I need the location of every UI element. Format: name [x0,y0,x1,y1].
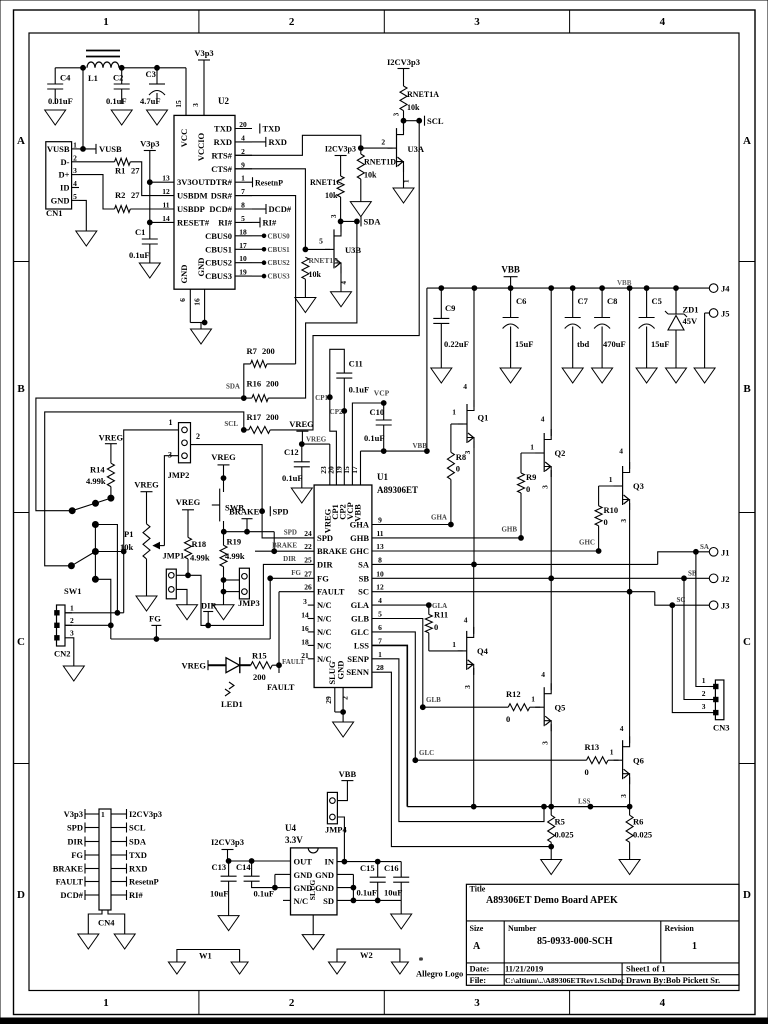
net label DIR flag [201,601,217,628]
svg-text:N/C: N/C [317,600,332,610]
ground J5 [694,368,715,383]
wire CP1 net [327,349,344,485]
svg-text:CBUS3: CBUS3 [205,271,232,281]
svg-text:RTS#: RTS# [212,150,233,160]
chip U1 A89306ET [314,472,418,688]
ground C3 [147,110,168,125]
svg-text:12: 12 [376,583,384,592]
svg-text:R1: R1 [115,166,125,176]
net label SB [688,569,697,577]
svg-text:SLUG: SLUG [308,880,317,901]
net label SPD pin grey [284,529,297,537]
svg-text:4: 4 [619,446,623,455]
svg-text:R11: R11 [434,610,448,620]
strap W1 [177,950,240,963]
svg-text:R18: R18 [192,539,207,549]
power VBB JMP4 [337,769,356,801]
wire Q6 source to LSS [627,777,632,809]
svg-text:JMP2: JMP2 [168,470,190,480]
svg-text:VCP: VCP [374,388,390,397]
svg-text:SA: SA [358,559,370,569]
svg-text:3: 3 [619,519,628,523]
svg-text:RXD: RXD [129,864,147,874]
wire FAULT net [277,592,315,668]
svg-text:VREG: VREG [289,419,314,429]
svg-text:SA: SA [700,543,709,551]
svg-text:DCD#: DCD# [60,890,83,900]
svg-text:4: 4 [241,133,245,142]
net label SDA row [226,383,240,391]
wire Q5 source to LSS [549,724,554,809]
svg-text:FG: FG [317,573,329,583]
ground JMP1 [177,605,198,620]
svg-text:VREG: VREG [99,433,124,443]
wire VCP net [352,401,386,485]
net label VREG grey [306,436,327,444]
svg-text:0: 0 [604,517,608,527]
svg-text:9: 9 [378,516,382,525]
ground W2 left [329,962,346,974]
title block frame [466,884,739,985]
svg-text:0.1uF: 0.1uF [282,473,303,483]
svg-text:IN: IN [325,857,335,867]
net label GHB [501,526,517,534]
net label SDA [361,216,381,226]
svg-text:6: 6 [178,298,187,302]
svg-text:BRAKE: BRAKE [272,542,297,550]
svg-text:GND: GND [315,883,334,893]
svg-text:N/C: N/C [317,640,332,650]
resistor R15 [251,650,279,682]
svg-text:GND: GND [315,870,334,880]
svg-text:1: 1 [103,16,109,28]
svg-text:1: 1 [73,140,77,149]
svg-text:0.1uF: 0.1uF [357,888,378,898]
svg-text:VBB: VBB [413,442,428,450]
svg-text:A: A [743,135,751,147]
svg-text:3: 3 [303,597,307,606]
resistor R10 [595,505,618,551]
switch blade 1 [69,495,114,514]
ground C8 [592,368,613,383]
net label VCP [374,388,390,397]
svg-text:VREG: VREG [176,497,201,507]
resistor R17 [244,412,279,433]
svg-text:D-: D- [61,157,70,167]
svg-text:R19: R19 [227,536,242,546]
net label BRAKE flag [229,507,260,535]
connector CN1 [46,140,79,218]
net label FG [149,614,161,640]
chip U4 regulator [285,823,337,915]
power V3p3 3V3OUT [140,139,159,240]
wire switch tap B [95,549,126,554]
resistor R1 [79,158,140,175]
power VREG R14 [99,433,124,464]
ground R5 [541,860,562,875]
svg-text:2: 2 [73,153,77,162]
svg-text:27: 27 [131,190,140,200]
ground C7 [562,368,583,383]
resistor R6 [626,807,652,860]
svg-text:200: 200 [262,346,275,356]
svg-text:3: 3 [619,794,628,798]
svg-text:SENN: SENN [346,667,370,677]
svg-text:200: 200 [266,379,279,389]
svg-text:2: 2 [241,147,245,156]
svg-text:C: C [743,636,751,648]
wire CN1 GND [79,200,86,231]
connector J3 [709,601,729,611]
capacitor C8 [594,288,626,368]
wire FG select [111,576,314,642]
svg-text:2: 2 [289,997,295,1009]
svg-text:4: 4 [463,382,467,391]
net label SC [677,596,686,604]
svg-text:C12: C12 [284,447,299,457]
svg-text:1: 1 [101,810,105,819]
wire U3A gate lead [361,137,393,148]
svg-text:DCD#: DCD# [269,204,292,214]
resistor RNET1A [400,86,439,121]
svg-text:10k: 10k [364,171,377,180]
inductor L1 [86,51,120,84]
wire GLB [372,619,425,710]
svg-text:CBUS2: CBUS2 [205,258,232,268]
svg-text:Number: Number [508,924,537,933]
svg-text:4.99k: 4.99k [86,476,106,486]
wire CN4 legs [88,910,124,934]
svg-text:C13: C13 [212,862,227,872]
svg-text:0.1uF: 0.1uF [254,889,275,899]
wire Q1 source to SA [472,441,477,567]
svg-text:Size: Size [470,924,484,933]
svg-text:GHA: GHA [431,514,447,522]
svg-text:3: 3 [474,997,480,1009]
ground CN2 [63,666,84,681]
wire Q6 drain [629,592,631,744]
svg-text:26: 26 [304,583,312,592]
ground U1 [333,722,354,737]
resistor R5 [548,807,574,860]
ground C5 [636,368,657,383]
svg-text:J1: J1 [721,547,730,557]
wire SCL staircase [270,121,419,430]
svg-text:GHB: GHB [501,526,517,534]
wire GHC [372,549,601,554]
wire top rail VUSB/V3p3 [55,65,186,70]
ground C12 [291,488,312,503]
wire VUSB [79,68,96,152]
svg-text:1: 1 [531,695,535,704]
net label TXD [260,124,281,134]
transistor Q2 [530,429,565,489]
svg-text:ZD1: ZD1 [683,305,699,315]
svg-text:V3p3: V3p3 [194,48,213,58]
svg-text:R2: R2 [115,190,125,200]
svg-text:0.1uF: 0.1uF [106,96,127,106]
capacitor C5 [639,288,670,368]
svg-text:470uF: 470uF [603,339,626,349]
svg-text:1: 1 [70,603,74,612]
led LED1 [208,657,251,709]
svg-text:45V: 45V [683,316,699,326]
svg-text:14: 14 [162,214,170,223]
svg-text:1: 1 [169,418,173,427]
svg-text:ID: ID [60,183,69,193]
svg-text:SPD: SPD [67,823,83,833]
chip U2 FT230X [174,96,235,289]
wire RESET# [147,220,174,225]
svg-text:22: 22 [304,542,312,551]
svg-text:GLC: GLC [351,627,369,637]
net label VBB grey U1 [413,442,428,450]
svg-text:0: 0 [526,484,530,494]
wire SCL row to switch [45,412,244,566]
svg-text:0.025: 0.025 [633,830,652,840]
svg-text:C14: C14 [236,862,251,872]
svg-text:27: 27 [304,569,312,578]
svg-text:3: 3 [463,685,472,689]
wire R2 to USBDP [130,208,174,210]
svg-text:4: 4 [660,16,666,28]
svg-text:1: 1 [610,748,614,757]
ground R6 [619,860,640,875]
svg-text:CBUS1: CBUS1 [268,246,291,254]
net label CP1 [315,394,328,402]
wire GHB [372,536,523,541]
svg-text:GLC: GLC [419,749,434,757]
resistor R14 [86,463,114,498]
wire RTS# to U3A gate [235,135,363,155]
wire U3B drain [340,221,342,232]
svg-text:R17: R17 [247,412,262,422]
svg-text:*: * [419,956,424,967]
svg-text:TXD: TXD [263,124,281,134]
net label RI# [252,217,277,227]
svg-text:0: 0 [456,464,460,474]
resistor R18 [185,537,210,575]
svg-text:1: 1 [609,475,613,484]
svg-text:R14: R14 [90,465,105,475]
svg-text:VREG: VREG [134,480,159,490]
svg-text:20: 20 [239,120,247,129]
svg-text:0: 0 [585,767,589,777]
net label SPD flag [270,506,288,516]
wire Q3 source to SC [627,503,632,594]
svg-text:C7: C7 [578,296,589,306]
wire Q4 gate [429,640,463,651]
power I2CV3p3 RNET1A [387,57,420,86]
svg-text:J5: J5 [721,309,730,319]
svg-text:VUSB: VUSB [47,144,70,154]
svg-text:CN1: CN1 [46,208,63,218]
wire JMP1 bottom to ground [176,589,187,604]
svg-text:5: 5 [378,610,382,619]
svg-text:RNET1D: RNET1D [364,158,396,167]
svg-text:N/C: N/C [317,614,332,624]
ground RNET1B [295,298,316,313]
svg-text:CBUS0: CBUS0 [268,232,291,240]
ground RNET1D [350,202,371,217]
svg-text:N/C: N/C [317,627,332,637]
svg-text:V3p3: V3p3 [64,809,83,819]
svg-text:200: 200 [253,672,266,682]
svg-text:0: 0 [434,622,438,632]
wire SDA row to switch [36,398,244,511]
svg-text:4: 4 [620,724,624,733]
svg-text:5: 5 [73,192,77,201]
svg-text:FG: FG [71,850,83,860]
ground U4 [302,935,324,950]
svg-text:GLB: GLB [351,614,369,624]
svg-text:1: 1 [103,997,109,1009]
svg-text:LED1: LED1 [221,699,243,709]
svg-text:GND: GND [51,195,70,205]
svg-text:1: 1 [530,443,534,452]
wire U4 IN rail [337,859,401,864]
svg-text:ResetnP: ResetnP [129,877,159,887]
svg-text:R16: R16 [247,379,262,389]
svg-text:SB: SB [359,573,370,583]
capacitor C4 [47,68,73,106]
svg-text:U3B: U3B [345,245,361,255]
svg-text:0.025: 0.025 [555,830,574,840]
svg-text:3: 3 [73,166,77,175]
power VREG R18 [176,497,201,538]
svg-text:3: 3 [393,112,401,116]
svg-text:W2: W2 [360,950,373,960]
svg-text:U3A: U3A [408,144,425,154]
capacitor C15 [357,862,386,901]
svg-text:Q3: Q3 [633,481,644,491]
svg-text:SDA: SDA [226,383,240,391]
resistor RNET1D [357,148,396,202]
svg-text:DIR: DIR [283,555,297,563]
svg-text:VCC: VCC [179,129,189,147]
wire GLB to R12 [423,706,508,708]
svg-text:CP2: CP2 [330,408,343,416]
connector CN3 [702,676,730,733]
svg-text:3V3OUT: 3V3OUT [177,177,210,187]
svg-text:GHA: GHA [350,520,370,530]
svg-text:W1: W1 [199,951,212,961]
svg-text:17: 17 [350,466,359,474]
svg-text:3: 3 [541,485,550,489]
svg-text:RNET1A: RNET1A [407,90,439,99]
net label CP2 [330,408,343,416]
svg-text:SPD: SPD [317,533,333,543]
svg-text:DCD#: DCD# [209,204,232,214]
transistor U3A [388,112,425,183]
U2 bottom pins 6 16 [178,289,207,329]
wire Q3 gate [599,486,619,506]
svg-text:RNET1B: RNET1B [309,256,339,265]
svg-text:DIR: DIR [67,837,83,847]
svg-text:1: 1 [378,650,382,659]
capacitor C2 [106,68,130,106]
wire GLA [372,603,431,608]
svg-text:7: 7 [241,187,245,196]
svg-text:DIR: DIR [317,559,333,569]
svg-text:7: 7 [378,636,382,645]
svg-text:SPD: SPD [284,529,297,537]
net label RXD [252,137,287,147]
resistor R11 [425,605,448,651]
svg-text:8: 8 [241,201,245,210]
wire VBB pin net [361,449,430,485]
pushbutton SWB [212,489,244,532]
svg-text:RI#: RI# [263,218,277,228]
svg-text:J3: J3 [721,601,730,611]
wire phase A drain [463,288,474,407]
capacitor C9 [433,288,468,368]
svg-text:10uF: 10uF [210,889,228,899]
power I2CV3p3 U4 [211,837,244,861]
U1 left pin numbers [301,529,314,660]
svg-text:FAULT: FAULT [267,682,295,692]
svg-text:3: 3 [541,741,550,745]
svg-text:27: 27 [131,166,140,176]
svg-text:13: 13 [162,174,170,183]
ground U3A [393,188,414,203]
svg-text:10uF: 10uF [384,888,402,898]
svg-text:VBB: VBB [339,769,357,779]
svg-text:Revision: Revision [665,924,695,933]
svg-text:BRAKE: BRAKE [317,546,348,556]
svg-text:FAULT: FAULT [56,877,84,887]
svg-text:R5: R5 [555,817,565,827]
svg-text:SDA: SDA [129,837,147,847]
wire U3B gate lead [305,237,330,250]
svg-text:R10: R10 [604,505,619,515]
wire JMP4 to IN [337,817,346,864]
ground W2 right [391,962,408,974]
svg-text:Q6: Q6 [633,756,644,766]
svg-text:1: 1 [692,941,697,952]
svg-text:USBDM: USBDM [177,191,208,201]
svg-text:I2CV3p3: I2CV3p3 [129,809,162,819]
svg-text:4.99k: 4.99k [190,553,210,563]
ground C16 [391,914,412,929]
wire phase C drain [619,288,629,469]
svg-text:V3p3: V3p3 [140,139,159,149]
svg-text:2: 2 [70,616,74,625]
svg-text:N/C: N/C [294,896,309,906]
net label FAULT grey [282,658,305,666]
svg-text:JMP1: JMP1 [163,551,185,561]
svg-text:10k: 10k [325,191,338,200]
zener ZD1 [665,288,699,368]
svg-text:FG: FG [291,569,301,577]
resistor R12 [506,689,530,724]
title block text [470,885,721,986]
svg-text:SW1: SW1 [64,586,81,596]
svg-text:J2: J2 [721,574,730,584]
svg-text:5: 5 [319,237,323,246]
svg-text:CBUS1: CBUS1 [205,244,232,254]
power VREG SWB [211,452,236,492]
svg-text:BRAKE: BRAKE [53,864,84,874]
svg-text:4: 4 [464,616,468,625]
wire Q2 source to SB [549,470,554,581]
U1 top pin numbers [319,466,359,474]
svg-text:15uF: 15uF [651,339,669,349]
wire Q2 gate [521,453,540,473]
svg-text:Q4: Q4 [477,646,489,656]
svg-text:VCCIO: VCCIO [196,132,206,161]
ground C6 [500,368,521,383]
